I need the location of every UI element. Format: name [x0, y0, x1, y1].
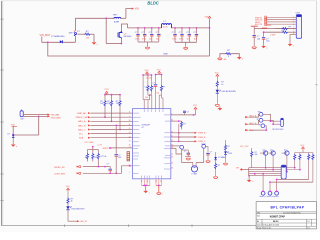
svg-text:32: 32 — [160, 181, 162, 183]
svg-text:HALL_C: HALL_C — [78, 128, 86, 131]
wire row3 + port — [78, 120, 133, 123]
wire (step up to mcu pin) — [122, 166, 133, 174]
wire row (vdd) — [171, 110, 196, 115]
wire osc2 from mcu — [171, 147, 176, 149]
transistor Q? (circle) B — [268, 149, 275, 155]
svg-text:C?: C? — [187, 111, 189, 113]
power flag VCC — [104, 89, 109, 95]
jumper circle TP3 — [258, 124, 265, 128]
output connector CN? — [281, 165, 286, 179]
power flag VCC (right) — [193, 105, 198, 110]
capacitor C1 — [135, 27, 140, 42]
wire (right drop) — [209, 20, 211, 57]
resistor R? div1 — [294, 153, 296, 168]
svg-text:VCC_15V: VCC_15V — [240, 146, 249, 148]
wire (left run) — [13, 134, 39, 136]
svg-text:R? 10k: R? 10k — [101, 156, 107, 158]
svg-text:GND_BAT: GND_BAT — [51, 116, 62, 119]
resistor R0 ohm gnd tie — [220, 50, 239, 58]
svg-text:470u: 470u — [135, 39, 139, 41]
capacitor C? osc left — [182, 150, 191, 157]
transistor Q? (circle) C — [282, 149, 290, 155]
svg-text:15: 15 — [129, 140, 131, 142]
wire — [74, 18, 76, 31]
wire (down from junction) — [38, 116, 40, 135]
svg-text:bemf_a: bemf_a — [260, 196, 266, 198]
svg-text:104: 104 — [118, 157, 121, 159]
wire pin4 — [255, 23, 296, 26]
resistor R? div3 — [308, 153, 310, 180]
wire group2 rail — [155, 74, 163, 76]
svg-text:GND: GND — [163, 54, 168, 56]
ground (red, top right) — [218, 107, 222, 111]
svg-text:R?: R? — [95, 157, 97, 159]
wire (bank1 bottom) — [138, 41, 159, 43]
svg-text:R?: R? — [218, 165, 220, 167]
resistor R? 10k (col3) — [116, 95, 121, 130]
svg-text:C?: C? — [210, 151, 212, 153]
svg-text:VCC: VCC — [215, 72, 220, 74]
wire (vss group B) — [156, 179, 162, 187]
wire row2 + port — [76, 116, 133, 119]
svg-text:VBAT_AD: VBAT_AD — [77, 112, 87, 115]
svg-text:VM: VM — [205, 17, 208, 19]
wire stub g2 to pins — [159, 95, 163, 109]
junction rail right — [209, 27, 211, 29]
wire row6 + port — [79, 133, 133, 136]
ground (arc) led2 — [223, 163, 227, 165]
mcu red pin numbers (left edge) — [129, 112, 131, 174]
wire bus row1 — [244, 167, 296, 170]
svg-text:VCC: VCC — [157, 69, 162, 71]
wire bus row4 — [249, 173, 282, 175]
svg-text:BLDC: BLDC — [147, 0, 158, 5]
svg-text:R?: R? — [228, 146, 230, 148]
wire — [42, 41, 76, 43]
mcu pin name ticks (inside left) — [133, 113, 140, 173]
capacitor C? 104 (col B) — [262, 32, 270, 46]
mcu pin name ticks (inside top/bottom) — [142, 109, 163, 178]
wire (loop) — [176, 148, 204, 162]
wire (Q source down) — [120, 38, 122, 43]
mcu red pin numbers (right edge) — [171, 114, 173, 170]
svg-text:23: 23 — [147, 181, 149, 183]
capacitor C? osc right — [206, 146, 212, 160]
svg-text:VCC GND: VCC GND — [84, 142, 94, 144]
capacitor C2 — [142, 27, 147, 42]
svg-text:R?: R? — [163, 87, 165, 89]
wire (row bemf1 to ports) — [54, 166, 110, 169]
svg-text:BLDC: BLDC — [273, 221, 279, 223]
resistor R? (below zener) — [215, 160, 221, 176]
svg-text:10uH: 10uH — [163, 27, 168, 29]
resistor R? (colB) — [92, 150, 97, 162]
wire (MCU gate zig from rail) — [121, 24, 127, 31]
svg-text:SPEED_FB: SPEED_FB — [54, 167, 65, 169]
capacitor C? g2a — [152, 75, 157, 109]
wire pin3 — [255, 21, 296, 24]
power flag VCC (top of right drop) — [205, 16, 211, 19]
wire row8 (nrst) — [103, 147, 133, 150]
ground colA — [252, 47, 256, 49]
ground (triangle, right of R0) — [237, 57, 243, 60]
LED D? blue/green — [216, 90, 237, 104]
svg-text:C?: C? — [145, 87, 147, 89]
test pad circle B — [267, 190, 273, 198]
svg-text:36: 36 — [171, 157, 173, 159]
svg-text:Y? 8M: Y? 8M — [191, 174, 197, 176]
svg-text:VCC: VCC — [66, 186, 71, 188]
svg-text:D? MBRS340: D? MBRS340 — [51, 36, 65, 38]
svg-text:LED BLUE/GRN: LED BLUE/GRN — [222, 91, 237, 93]
wire pin1 — [255, 16, 296, 19]
connector CN? battery — [20, 110, 25, 121]
resistor R? 10k (col1) — [100, 95, 106, 118]
wire row1 + port — [77, 112, 133, 115]
resistor R? 1k — [216, 78, 224, 90]
power flag VCC group2 — [157, 69, 162, 74]
port HALL_A — [245, 114, 257, 118]
wire (pwm riser) — [178, 124, 180, 141]
svg-text:R?: R? — [85, 157, 87, 159]
svg-text:10k 10k: 10k 10k — [146, 78, 152, 80]
node VIN port (left) — [11, 125, 17, 133]
svg-text:VIN_BAT: VIN_BAT — [40, 33, 51, 37]
wire — [263, 114, 281, 121]
inductor L? 10uH — [162, 21, 172, 28]
ground bank1 — [145, 42, 149, 49]
wire — [74, 36, 76, 42]
svg-text:PWM_A: PWM_A — [198, 132, 206, 135]
wire — [106, 43, 121, 45]
port arrow BAT- — [48, 115, 62, 119]
svg-text:PWM_B: PWM_B — [198, 137, 206, 139]
resistor array RN? (beside mcu left edge) — [127, 152, 130, 161]
resistor R? (colA) — [85, 150, 89, 162]
svg-text:CURR_SEN: CURR_SEN — [54, 173, 66, 175]
svg-text:TP?: TP? — [258, 124, 261, 126]
ground (arc, left of R0) — [218, 58, 227, 61]
resistor R? (boot) — [171, 120, 186, 129]
junction — [47, 41, 49, 43]
wire — [249, 126, 266, 130]
jumper circle TP1 — [258, 112, 263, 117]
ground (triangle) group A — [144, 185, 150, 194]
power flag VCC group1 — [145, 70, 150, 75]
svg-text:31: 31 — [155, 181, 157, 183]
svg-text:VIN: VIN — [135, 8, 139, 11]
capacitor C8 — [193, 27, 198, 42]
wire pin2 — [255, 18, 296, 21]
wire — [249, 120, 260, 124]
svg-text:104: 104 — [187, 39, 190, 41]
resistor R? g1a — [145, 75, 149, 95]
port arrow BAT+ — [48, 113, 61, 116]
transistor Q1 (main switch) — [118, 31, 132, 38]
svg-text:470u: 470u — [142, 39, 146, 41]
svg-text:104: 104 — [156, 92, 159, 94]
svg-text:37: 37 — [171, 154, 173, 156]
ground (arc) group B — [157, 185, 164, 195]
fuse/switch Q? — [69, 31, 81, 36]
wire — [105, 18, 107, 43]
wire pin6 — [263, 31, 282, 36]
wire (top feed) — [75, 17, 114, 19]
svg-text:1k: 1k — [221, 84, 223, 86]
resistor R? (left) — [251, 148, 258, 168]
svg-text:LED_ST: LED_ST — [80, 221, 88, 223]
svg-text:bemf_c: bemf_c — [273, 196, 279, 198]
svg-text:Size: Size — [257, 215, 260, 217]
jumper circle A — [180, 145, 184, 149]
wire osc1 from mcu — [171, 145, 180, 147]
mcu U? box — [133, 109, 171, 179]
svg-text:470u: 470u — [179, 39, 183, 41]
node VIN_F port arrow — [132, 8, 139, 11]
wire bat- — [23, 115, 47, 117]
svg-text:10k: 10k — [100, 103, 103, 105]
ground pin7 (triangle) — [288, 44, 295, 47]
wire group1 bottom joins — [143, 75, 151, 100]
wire (main rail) — [128, 27, 162, 29]
wire bat+ — [23, 114, 47, 116]
svg-text:Q?: Q? — [284, 149, 286, 151]
svg-text:Scale: Sheet 1 of 1: Scale: Sheet 1 of 1 — [257, 227, 271, 230]
svg-text:1/1: 1/1 — [307, 228, 309, 230]
LED D? red — [66, 206, 85, 221]
port PHASE (left arrow) — [236, 167, 244, 170]
junction — [38, 116, 40, 118]
svg-text:SDA: SDA — [79, 137, 84, 140]
wire pin7 elbow to gnd — [290, 35, 296, 44]
svg-text:SPEED_CMD: SPEED_CMD — [76, 117, 89, 119]
resistor R? 10k (branch right of fuse) — [78, 31, 95, 42]
ground (arc) col x=215.6 — [214, 177, 218, 179]
mcu pin name ticks (inside right) — [164, 115, 170, 169]
connector CN? (header) — [296, 12, 302, 38]
svg-text:+C R: +C R — [97, 145, 102, 147]
wire (bemf feedback row2) — [269, 181, 313, 183]
jumper circle TP2 — [257, 118, 263, 122]
capacitor C7 — [186, 27, 191, 42]
LED D? red — [224, 151, 233, 162]
capacitor C6 — [179, 27, 184, 42]
ground (triangle) bus — [247, 176, 253, 184]
power flag VCC led1 — [215, 72, 220, 77]
resistor R? g2b — [160, 75, 165, 96]
wire (bemf feedback row1) — [276, 179, 309, 181]
ground (arc) led1 — [215, 105, 219, 107]
svg-text:Date: Tuesday, April 18, 202: Date: Tuesday, April 18, 2023 — [257, 223, 279, 226]
ferrite bead FB? — [113, 15, 121, 24]
test pad circle C — [273, 190, 279, 198]
svg-text:TP?: TP? — [257, 119, 260, 121]
ground bar symbol (left) — [251, 26, 258, 28]
ground bank2 — [184, 42, 188, 49]
svg-text:470u: 470u — [172, 39, 176, 41]
wire — [263, 120, 281, 124]
diode zener D? — [8, 134, 15, 145]
wire (elbow up to net arrow) — [126, 9, 132, 19]
junction — [121, 43, 123, 45]
wire + port PWM_A — [171, 132, 206, 135]
ground (red) below R — [92, 43, 99, 46]
svg-text:7: 7 — [129, 172, 130, 174]
svg-text:TP?: TP? — [258, 112, 261, 114]
svg-text:VCC: VCC — [145, 70, 150, 72]
wire stubs to mcu top pins — [144, 95, 152, 109]
wire bus row3 — [249, 171, 288, 173]
diode D1 MBRS340 — [51, 36, 65, 43]
junction — [105, 17, 107, 19]
resistor R? led2 — [224, 140, 230, 151]
transistor Q? (circle) A — [260, 149, 268, 155]
capacitor C? (on vdd row) — [183, 111, 189, 115]
wire group1 rail — [142, 74, 152, 76]
wire divider rail — [295, 152, 313, 154]
svg-text:R?: R? — [183, 123, 185, 125]
svg-text:HALL_B: HALL_B — [78, 124, 86, 127]
wire bus row2 — [249, 169, 301, 171]
red pin numbers (bottom pins) — [141, 181, 162, 183]
svg-text:e: e — [252, 181, 253, 183]
svg-text:CN?: CN? — [296, 12, 301, 14]
svg-text:SW?: SW? — [69, 32, 75, 34]
ground osc left (arc) — [186, 158, 190, 160]
svg-text:bemf_b: bemf_b — [267, 196, 273, 198]
wire row7 + port — [79, 137, 133, 140]
wire (return loop left+bottom) — [48, 42, 210, 56]
capacitor C3 — [149, 27, 154, 42]
svg-text:20: 20 — [141, 181, 143, 183]
crystal Y? — [191, 162, 197, 175]
svg-text:KOMBT CPAP: KOMBT CPAP — [270, 216, 286, 219]
svg-text:C?: C? — [107, 163, 109, 165]
svg-text:MOTOR 24V: MOTOR 24V — [273, 129, 285, 131]
wire bus row5 — [248, 175, 281, 177]
svg-text:VCC: VCC — [104, 89, 109, 91]
svg-text:BPL CPAP/BLPAP: BPL CPAP/BLPAP — [271, 206, 305, 210]
wire (drops to test pads) — [263, 174, 277, 192]
wire row4 + port — [78, 124, 133, 127]
capacitor C5 — [172, 27, 177, 42]
diode zener D? MM3Z — [214, 152, 227, 160]
capacitor C? (between rows) — [107, 163, 112, 173]
resistor R? 1k — [67, 191, 73, 206]
svg-text:C?: C? — [153, 87, 155, 89]
svg-text:35: 35 — [171, 162, 173, 164]
svg-text:1.0: 1.0 — [307, 221, 309, 223]
svg-text:0 4R7: 0 4R7 — [270, 34, 276, 36]
svg-text:Q?: Q? — [270, 149, 272, 151]
ground (triangle) below zener — [11, 145, 18, 148]
svg-text:104: 104 — [194, 39, 197, 41]
wire row5 + port — [78, 128, 133, 131]
svg-text:VCC: VCC — [193, 105, 198, 107]
svg-text:1k: 1k — [71, 201, 73, 203]
svg-text:VCC: VCC — [300, 145, 305, 147]
capacitor C4 — [156, 27, 161, 42]
svg-text:IRF9540: IRF9540 — [124, 36, 133, 38]
power flag VCC — [66, 186, 71, 191]
resistor R? g1b — [150, 75, 155, 95]
pin numbers connector — [293, 17, 294, 35]
svg-text:VIN_BAT: VIN_BAT — [51, 113, 61, 116]
svg-text:C?: C? — [184, 151, 186, 153]
ground osc right (arc) — [206, 161, 210, 163]
resistor R? div4 — [312, 153, 314, 183]
port HALL_B — [245, 122, 257, 125]
resistor R? 10k (col2) — [107, 95, 112, 122]
capacitor C? 104 (on long vertical) — [115, 125, 122, 174]
svg-text:STM32F: STM32F — [142, 125, 151, 127]
port HALL_C — [245, 129, 254, 132]
power flag VCC (divider rail) — [300, 145, 305, 150]
ground colB (triangle) — [262, 46, 269, 49]
wire (vss group A) — [142, 179, 150, 187]
wire — [121, 17, 126, 19]
capacitor C? 104 (col A) — [253, 29, 262, 46]
node VIN_BAT label — [40, 33, 51, 42]
wire bus left risers — [248, 168, 250, 176]
svg-text:GND: GND — [267, 25, 272, 27]
wire (small rail) — [88, 146, 99, 150]
svg-text:Title: Title — [257, 211, 260, 214]
svg-text:600R: 600R — [114, 21, 120, 23]
resistor R? (colC, nrst pullup) — [97, 150, 106, 167]
wire + port PWM_C — [171, 140, 206, 145]
junction row4->pad — [255, 173, 264, 175]
svg-text:HALL_A: HALL_A — [78, 120, 86, 123]
node VCC GND label — [84, 142, 102, 146]
svg-text:e: e — [149, 192, 150, 194]
motor connector CN? — [273, 118, 285, 131]
jumper circle B — [202, 144, 206, 148]
svg-text:Q?: Q? — [263, 149, 265, 151]
wire + port (bottom) — [68, 220, 88, 223]
wire + port PWM_B — [171, 136, 206, 139]
resistor R? (pin5b series) — [275, 27, 296, 30]
wire (bank rail) — [105, 94, 120, 96]
wire (Q drops to bus) — [266, 155, 287, 171]
wire — [249, 114, 260, 117]
svg-text:104: 104 — [145, 97, 148, 99]
wire (row2 to port) — [54, 172, 122, 175]
svg-text:104: 104 — [149, 39, 152, 41]
resistor R? (pin6 series) — [282, 30, 297, 33]
resistor R? div2 — [299, 153, 301, 170]
wire (bank2 bottom) — [175, 41, 197, 43]
svg-text:10k: 10k — [255, 154, 258, 156]
wire pin5 (gnd rail) — [254, 27, 296, 30]
svg-text:34: 34 — [171, 168, 173, 170]
svg-text:Document Number Rev: Document Number Rev — [283, 211, 301, 214]
test pad circle A — [260, 190, 266, 198]
svg-text:C?: C? — [152, 82, 154, 84]
svg-text:A4: A4 — [257, 220, 259, 223]
svg-text:104: 104 — [156, 39, 159, 41]
svg-text:LED RED/ORG: LED RED/ORG — [71, 208, 85, 210]
svg-text:d: d — [242, 58, 243, 60]
junction — [12, 133, 14, 135]
svg-text:8: 8 — [293, 33, 294, 35]
red value texts group bottoms — [146, 78, 159, 95]
